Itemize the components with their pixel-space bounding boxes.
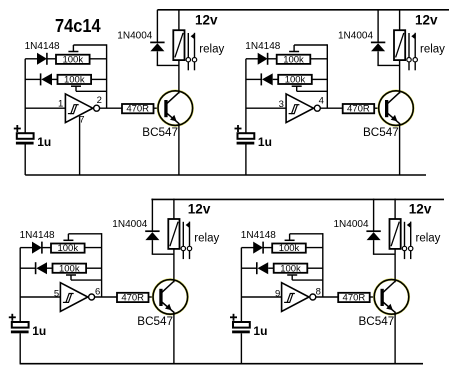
diode 1N4004 U1B [371, 41, 385, 43]
wire feedback vertical U1B [326, 44, 328, 108]
svg-text:9: 9 [275, 288, 280, 299]
wire D1 row U1B [246, 58, 258, 60]
diode D1 1N4148 U1D [253, 242, 263, 254]
relay contact moving with arrow U1B [414, 33, 416, 58]
stub to R2 bottom U1A [75, 86, 77, 91]
wire 1N4004 branch top U1B [377, 10, 379, 42]
wire relay coil top U1D [394, 199, 396, 219]
wire D2 to R2 U1D [268, 267, 274, 269]
relay contact fixed U1C [182, 222, 184, 246]
wire feedback vertical U1D [322, 233, 324, 297]
plus sign U1A [14, 128, 21, 130]
wire capacitor to ground rail U1D [240, 333, 242, 364]
hysteresis symbol U1C [66, 294, 72, 303]
wire 1N4004 branch bottom U1C [151, 240, 153, 254]
diode D2 1N4148 U1A [40, 73, 42, 85]
wire 1N4004 branch top U1A [156, 10, 158, 42]
output bubble U1C [89, 294, 95, 300]
resistor R1 100k U1D [272, 244, 306, 253]
svg-text:74c14: 74c14 [55, 16, 101, 36]
relay contact moving with arrow U1D [410, 222, 412, 247]
wire D2 to R2 U1A [52, 78, 58, 80]
wire D1 row U1D [241, 247, 253, 249]
resistor R1 100k U1B [277, 55, 311, 64]
svg-text:12v: 12v [188, 202, 211, 217]
diode 1N4004 U1D [366, 230, 380, 232]
wire gate input U1B [246, 107, 286, 109]
relay coil box U1D [390, 219, 401, 249]
wire D2 row U1A [25, 78, 40, 80]
svg-text:1: 1 [58, 98, 63, 109]
diode D1 1N4148 U1C [32, 242, 42, 254]
wire relay coil top U1B [399, 10, 401, 30]
stub to R1 top U1C [67, 234, 69, 241]
relay contact fixed U1A [187, 33, 189, 57]
wire R2 to feedback vertical U1D [307, 267, 323, 269]
wire gate output U1D [316, 296, 338, 298]
svg-text:relay: relay [416, 232, 441, 244]
plus sign U1B [235, 128, 242, 130]
output bubble U1B [314, 105, 320, 111]
plus sign U1C [9, 316, 16, 318]
wire ground rail bottom row [20, 363, 423, 365]
relay coil box U1C [168, 219, 179, 249]
wire emitter U1A [178, 123, 180, 175]
wire D1 row U1C [20, 247, 32, 249]
wire R1 to feedback vertical U1A [90, 58, 107, 60]
wire diode to relay junction U1D [373, 253, 395, 255]
svg-text:1u: 1u [32, 324, 46, 338]
relay contact moving with arrow U1A [194, 33, 196, 58]
resistor R2 100k U1C [53, 264, 87, 273]
wire D2 to R2 U1B [273, 78, 279, 80]
diode D2 1N4148 U1B [260, 73, 262, 85]
wire top feedback tap U1D [290, 233, 323, 235]
resistor 470R U1D [338, 293, 370, 302]
svg-text:12v: 12v [409, 202, 432, 217]
wire D1 row U1A [25, 58, 37, 60]
diode D2 1N4148 U1C [35, 262, 37, 274]
svg-text:2: 2 [97, 95, 102, 106]
transistor Q U1D BC547 [374, 280, 409, 315]
wire top feedback tap U1C [68, 233, 101, 235]
relay contact fixed U1D [404, 222, 406, 246]
svg-text:1N4004: 1N4004 [338, 30, 373, 41]
wire feedback vertical U1A [106, 44, 108, 108]
wire R1 to feedback vertical U1D [306, 247, 323, 249]
wire D1 to R1 U1B [268, 58, 277, 60]
resistor R2 100k U1B [278, 75, 312, 84]
svg-text:1u: 1u [37, 135, 51, 149]
wire D1 to R1 U1D [263, 247, 272, 249]
svg-text:470R: 470R [343, 293, 366, 304]
pin 7 ground line U1A [79, 116, 81, 175]
svg-text:12v: 12v [195, 13, 218, 28]
wire 1N4004 branch bottom U1A [156, 51, 158, 65]
wire left vertical rail U1C [19, 248, 21, 322]
resistor 470R U1C [117, 293, 149, 302]
diode D1 1N4148 U1A [37, 53, 47, 65]
resistor R1 100k U1A [56, 55, 90, 64]
output bubble U1D [310, 294, 316, 300]
wire gate input U1D [241, 296, 281, 298]
wire 1N4004 branch top U1C [151, 199, 153, 231]
output bubble U1A [94, 105, 100, 111]
svg-text:4: 4 [319, 95, 324, 106]
hysteresis symbol U1D [287, 294, 293, 303]
svg-text:1u: 1u [253, 324, 267, 338]
svg-text:relay: relay [194, 232, 219, 244]
wire R2 to feedback vertical U1C [86, 267, 102, 269]
resistor 470R U1A [122, 104, 154, 113]
wire D2 row U1B [246, 78, 261, 80]
svg-text:1N4148: 1N4148 [20, 230, 55, 241]
wire D1 to R1 U1C [42, 247, 51, 249]
wire capacitor to ground rail U1C [19, 333, 21, 364]
hysteresis symbol U1B [292, 105, 298, 114]
wire gate output U1C [95, 296, 117, 298]
relay coil box U1B [394, 30, 405, 60]
stub to R1 top U1D [289, 234, 291, 241]
wire D2 row U1C [20, 267, 35, 269]
svg-text:BC547: BC547 [359, 315, 395, 328]
relay contact moving with arrow U1C [189, 222, 191, 247]
diode D1 1N4148 U1B [258, 53, 268, 65]
svg-text:6: 6 [95, 287, 100, 298]
wire 470R to base U1A [154, 107, 165, 109]
svg-text:5: 5 [54, 288, 59, 299]
diode 1N4004 U1A [150, 41, 164, 43]
svg-text:relay: relay [420, 44, 445, 56]
inverter gate U1C [60, 283, 87, 312]
stub to R1 top U1A [72, 45, 74, 52]
inverter gate U1A [65, 94, 92, 123]
wire 470R to base U1D [370, 296, 381, 298]
stub to R1 top U1B [293, 45, 295, 52]
wire gate input U1A [25, 107, 65, 109]
transistor Q U1A BC547 [158, 91, 193, 126]
wire bottom feedback tap U1D [292, 279, 323, 281]
svg-text:100k: 100k [64, 75, 85, 86]
svg-text:1N4004: 1N4004 [334, 219, 369, 230]
relay coil box U1A [173, 30, 184, 60]
wire gate output U1B [320, 107, 342, 109]
wire emitter U1B [399, 123, 401, 175]
svg-text:100k: 100k [280, 263, 301, 274]
resistor R2 100k U1D [274, 264, 308, 273]
inverter gate U1D [282, 283, 309, 312]
wire collector U1A [178, 60, 180, 93]
wire feedback vertical U1C [101, 233, 103, 297]
plus sign U1D [230, 316, 237, 318]
wire gate output U1A [100, 107, 122, 109]
wire top feedback tap U1B [294, 44, 327, 46]
svg-text:470R: 470R [126, 104, 149, 115]
wire relay coil top U1A [178, 10, 180, 30]
svg-text:3: 3 [279, 99, 284, 110]
wire bottom feedback tap U1C [71, 279, 102, 281]
svg-text:1N4148: 1N4148 [241, 230, 276, 241]
resistor R1 100k U1C [51, 244, 85, 253]
wire capacitor to ground rail U1B [245, 145, 247, 176]
wire top feedback tap U1A [73, 44, 106, 46]
hysteresis symbol U1A [71, 105, 77, 114]
wire ground rail top row [25, 174, 426, 176]
svg-text:1u: 1u [258, 135, 272, 149]
capacitor C 1u U1C [12, 322, 29, 328]
wire D1 to R1 U1A [47, 58, 56, 60]
svg-text:470R: 470R [121, 293, 144, 304]
wire R2 to feedback vertical U1A [91, 78, 107, 80]
svg-text:BC547: BC547 [137, 315, 173, 328]
transistor Q U1C BC547 [153, 280, 188, 315]
wire left vertical rail U1B [245, 59, 247, 133]
wire emitter U1D [394, 312, 396, 364]
wire R1 to feedback vertical U1C [85, 247, 102, 249]
svg-text:100k: 100k [279, 243, 300, 254]
wire bottom feedback tap U1B [297, 90, 328, 92]
wire relay coil top U1C [173, 199, 175, 219]
resistor R2 100k U1A [58, 75, 92, 84]
svg-text:100k: 100k [59, 263, 80, 274]
wire 12v supply rail top row [157, 9, 449, 11]
wire 470R to base U1C [149, 296, 160, 298]
wire emitter U1C [173, 312, 175, 364]
wire 1N4004 branch top U1D [373, 199, 375, 231]
svg-text:1N4148: 1N4148 [245, 41, 280, 52]
svg-text:12v: 12v [415, 13, 438, 28]
svg-text:BC547: BC547 [142, 126, 178, 139]
svg-text:470R: 470R [347, 104, 370, 115]
wire diode to relay junction U1A [157, 64, 179, 66]
wire left vertical rail U1A [24, 59, 26, 133]
wire diode to relay junction U1C [152, 253, 174, 255]
stub to R2 bottom U1B [296, 86, 298, 91]
wire R1 to feedback vertical U1B [310, 58, 327, 60]
wire diode to relay junction U1B [377, 64, 399, 66]
capacitor C 1u U1A [17, 133, 34, 139]
resistor 470R U1B [343, 104, 375, 113]
svg-text:1N4004: 1N4004 [117, 30, 152, 41]
wire gate input U1C [20, 296, 60, 298]
wire left vertical rail U1D [240, 248, 242, 322]
wire D2 row U1D [241, 267, 256, 269]
svg-text:BC547: BC547 [363, 126, 399, 139]
wire collector U1D [394, 249, 396, 282]
wire D2 to R2 U1C [47, 267, 53, 269]
inverter gate U1B [286, 94, 313, 123]
capacitor C 1u U1B [238, 133, 255, 139]
relay contact fixed U1B [408, 33, 410, 57]
wire 1N4004 branch bottom U1D [373, 240, 375, 254]
transistor Q U1B BC547 [379, 91, 414, 126]
svg-text:100k: 100k [57, 243, 78, 254]
svg-text:100k: 100k [283, 54, 304, 65]
svg-text:100k: 100k [285, 75, 306, 86]
wire bottom feedback tap U1A [76, 90, 107, 92]
stub to R2 bottom U1C [70, 275, 72, 280]
svg-text:1N4004: 1N4004 [112, 219, 147, 230]
diode 1N4004 U1C [145, 230, 159, 232]
capacitor C 1u U1D [233, 322, 250, 328]
wire capacitor to ground rail U1A [24, 145, 26, 176]
diode D2 1N4148 U1D [256, 262, 258, 274]
wire 1N4004 branch bottom U1B [377, 51, 379, 65]
wire 470R to base U1B [374, 107, 385, 109]
stub to R2 bottom U1D [291, 275, 293, 280]
svg-text:8: 8 [316, 287, 321, 298]
svg-text:1N4148: 1N4148 [25, 41, 60, 52]
wire 12v supply rail bottom row [151, 198, 444, 200]
wire collector U1C [173, 249, 175, 282]
svg-text:100k: 100k [62, 54, 83, 65]
wire R2 to feedback vertical U1B [312, 78, 328, 80]
wire collector U1B [399, 60, 401, 93]
svg-text:relay: relay [199, 44, 224, 56]
